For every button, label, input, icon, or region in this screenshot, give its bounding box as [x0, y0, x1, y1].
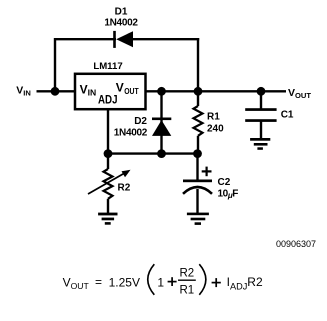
- resistor R2 (variable): [88, 154, 131, 214]
- node junction C1 tap: [257, 87, 266, 96]
- ground (R2): [98, 213, 117, 225]
- capacitor C1: [245, 91, 276, 139]
- wire D2 branch vertical: [160, 91, 162, 153]
- node junction VIN: [51, 87, 60, 96]
- svg-text:LM117: LM117: [93, 61, 122, 72]
- wire top rail right segment: [133, 38, 199, 40]
- svg-text:C1: C1: [281, 110, 294, 121]
- formula VOUT = 1.25V (1 + R2/R1) + IADJ R2: [63, 264, 263, 296]
- svg-text:ADJ: ADJ: [98, 92, 118, 106]
- svg-text:1: 1: [157, 275, 164, 289]
- svg-text:240: 240: [207, 124, 224, 135]
- svg-text:D1: D1: [115, 7, 128, 18]
- svg-text:=: =: [95, 275, 102, 289]
- wire output rail: [146, 90, 287, 92]
- svg-text:00906307: 00906307: [276, 239, 316, 249]
- diode D1: [113, 31, 133, 48]
- svg-text:1N4002: 1N4002: [104, 18, 138, 29]
- wire right vertical from top rail to output rail: [197, 38, 199, 91]
- ground (C1): [250, 138, 270, 150]
- node junction ADJ / R2: [104, 149, 113, 158]
- wire VIN lead: [37, 90, 76, 92]
- svg-text:R2: R2: [118, 182, 131, 193]
- node junction D2 top: [157, 87, 166, 96]
- capacitor C2 (polarized): [183, 154, 212, 214]
- node junction D2 bottom: [157, 149, 166, 158]
- resistor R1: [194, 91, 203, 153]
- svg-text:1.25V: 1.25V: [109, 276, 140, 290]
- svg-text:OUT: OUT: [124, 86, 139, 96]
- svg-text:D2: D2: [134, 116, 147, 127]
- wire bottom ADJ rail: [108, 152, 198, 154]
- ground (C2): [187, 213, 209, 225]
- svg-text:1N4002: 1N4002: [114, 128, 148, 139]
- svg-text:10μF: 10μF: [218, 189, 239, 200]
- op-amp U1 LM117 regulator box: [75, 74, 146, 109]
- svg-text:R2: R2: [180, 267, 195, 279]
- wire top rail left segment: [55, 38, 116, 40]
- diode D2: [152, 118, 171, 136]
- node junction R1 bottom / C2: [193, 149, 202, 158]
- node junction R1 top: [194, 87, 203, 96]
- wire left vertical from top rail to VIN node: [54, 38, 56, 91]
- wire ADJ vertical: [107, 109, 109, 154]
- svg-text:R1: R1: [207, 112, 220, 123]
- svg-text:R1: R1: [180, 285, 195, 297]
- svg-text:C2: C2: [218, 177, 231, 188]
